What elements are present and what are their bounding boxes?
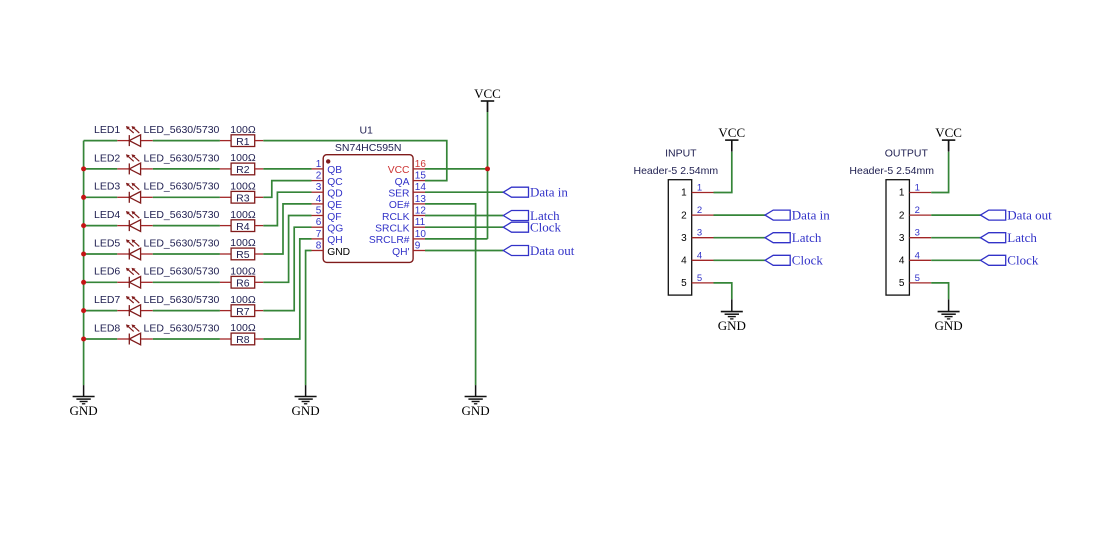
svg-text:5: 5	[316, 206, 322, 217]
svg-text:100Ω: 100Ω	[230, 322, 256, 334]
wire pin12 RCLK to Latch flag	[425, 215, 503, 217]
LED LED1	[117, 126, 153, 146]
svg-text:100Ω: 100Ω	[230, 237, 256, 249]
svg-text:QH': QH'	[392, 247, 409, 258]
svg-text:9: 9	[415, 241, 421, 252]
svg-text:Header-5 2.54mm: Header-5 2.54mm	[634, 165, 719, 177]
svg-text:LED3: LED3	[94, 181, 120, 193]
svg-text:Clock: Clock	[792, 253, 824, 268]
svg-text:R4: R4	[236, 221, 250, 233]
svg-text:VCC: VCC	[388, 165, 410, 176]
svg-text:3: 3	[899, 233, 905, 244]
net flag Latch INPUT	[765, 230, 822, 245]
pin 5 QF	[312, 206, 342, 223]
svg-text:2: 2	[915, 205, 920, 216]
svg-text:VCC: VCC	[474, 86, 501, 101]
wire INPUT pin2 to Data in flag	[714, 214, 766, 216]
wire R4 to pin3	[263, 192, 311, 225]
svg-text:5: 5	[681, 278, 687, 289]
svg-text:U1: U1	[359, 125, 373, 137]
wire VCC stem main	[487, 101, 489, 112]
svg-text:13: 13	[415, 194, 427, 205]
wire pin13 OE# to ground	[425, 204, 476, 385]
svg-text:4: 4	[899, 256, 905, 267]
wire INPUT pin4 to Clock flag	[714, 259, 766, 261]
svg-text:LED_5630/5730: LED_5630/5730	[144, 322, 220, 334]
svg-text:GND: GND	[327, 247, 350, 258]
svg-text:R5: R5	[236, 249, 250, 261]
svg-text:100Ω: 100Ω	[230, 294, 256, 306]
pin 2 of OUTPUT header	[899, 205, 931, 221]
svg-text:8: 8	[316, 241, 322, 252]
svg-text:10: 10	[415, 229, 427, 240]
svg-text:4: 4	[915, 250, 920, 261]
svg-text:100Ω: 100Ω	[230, 152, 256, 164]
net flag Data in SER	[503, 185, 568, 200]
svg-text:GND: GND	[70, 403, 98, 418]
wire LED7 to R7	[153, 310, 220, 312]
ground GND right	[462, 397, 490, 418]
pin 9 QH&#39;	[392, 241, 425, 258]
svg-text:Latch: Latch	[792, 230, 822, 245]
ground OUTPUT	[935, 312, 963, 333]
svg-text:4: 4	[697, 250, 702, 261]
net flag Clock SRCLK	[503, 220, 561, 235]
wire LED4 row left segment	[84, 225, 118, 227]
svg-text:Clock: Clock	[1007, 253, 1039, 268]
svg-text:1: 1	[316, 159, 322, 170]
svg-text:5: 5	[697, 273, 702, 284]
svg-text:7: 7	[316, 229, 322, 240]
svg-text:100Ω: 100Ω	[230, 124, 256, 136]
wire LED2 row left segment	[84, 168, 118, 170]
resistor R3	[220, 191, 263, 203]
svg-text:GND: GND	[935, 318, 963, 333]
wire LED2 to R2	[153, 168, 220, 170]
svg-text:3: 3	[316, 182, 322, 193]
LED LED3	[117, 183, 153, 203]
net flag Data in INPUT	[765, 208, 830, 223]
svg-text:LED6: LED6	[94, 266, 120, 278]
resistor R7	[220, 305, 263, 317]
svg-text:3: 3	[697, 228, 702, 239]
svg-text:6: 6	[316, 217, 322, 228]
pin 6 QG	[312, 217, 344, 234]
wire LED8 row left segment	[84, 338, 118, 340]
svg-text:SER: SER	[388, 189, 409, 200]
connector INPUT Header-5 body	[668, 180, 691, 295]
net flag Clock INPUT	[765, 253, 823, 268]
pin 8 GND	[312, 241, 351, 258]
svg-text:12: 12	[415, 206, 427, 217]
pin 15 QA	[395, 171, 427, 188]
junction node LED4 bus	[81, 223, 86, 228]
svg-text:2: 2	[681, 210, 687, 221]
junction node LED8 bus	[81, 337, 86, 342]
svg-text:R3: R3	[236, 193, 250, 205]
pin 14 SER	[388, 182, 426, 199]
pin 12 RCLK	[382, 206, 426, 223]
wire LED6 to R6	[153, 281, 220, 283]
svg-text:LED_5630/5730: LED_5630/5730	[144, 237, 220, 249]
wire INPUT pin3 to Latch flag	[714, 237, 766, 239]
svg-text:VCC: VCC	[935, 125, 962, 140]
svg-text:Data out: Data out	[530, 243, 575, 258]
wire left bus to ground stem	[83, 385, 85, 396]
svg-text:QA: QA	[395, 177, 410, 188]
wire INPUT pin1 to VCC	[714, 152, 732, 193]
svg-text:11: 11	[415, 217, 426, 228]
svg-text:16: 16	[415, 159, 427, 170]
svg-text:LED7: LED7	[94, 294, 120, 306]
svg-text:LED1: LED1	[94, 124, 120, 136]
wire LED7 row left segment	[84, 310, 118, 312]
svg-text:R2: R2	[236, 164, 250, 176]
LED LED7	[117, 296, 153, 316]
IC U1 pin1 marker dot	[326, 159, 330, 163]
svg-text:LED_5630/5730: LED_5630/5730	[144, 181, 220, 193]
junction node LED5 bus	[81, 252, 86, 257]
svg-text:RCLK: RCLK	[382, 212, 410, 223]
wire pin8 GND to ground	[306, 251, 312, 386]
pin 1 of OUTPUT header	[899, 183, 931, 199]
resistor R1	[220, 135, 263, 147]
pin 3 of OUTPUT header	[899, 228, 931, 244]
svg-text:Data in: Data in	[792, 208, 830, 223]
wire R8 to pin7	[263, 239, 311, 339]
wire R2 to pin1 QB	[263, 168, 311, 170]
connector OUTPUT Header-5 body	[886, 180, 909, 295]
svg-text:OUTPUT: OUTPUT	[885, 147, 929, 159]
pin 10 SRCLR#	[369, 229, 427, 246]
svg-text:LED_5630/5730: LED_5630/5730	[144, 152, 220, 164]
pin 5 of OUTPUT header	[899, 273, 931, 289]
wire R3 to pin2	[263, 181, 311, 198]
svg-text:QE: QE	[327, 200, 342, 211]
ground GND left	[70, 397, 98, 418]
resistor R4	[220, 220, 263, 232]
svg-text:LED2: LED2	[94, 152, 120, 164]
svg-text:LED5: LED5	[94, 237, 120, 249]
svg-text:5: 5	[899, 278, 905, 289]
wire LED5 to R5	[153, 253, 220, 255]
pin 11 SRCLK	[375, 217, 425, 234]
op IC U1 body SN74HC595N	[323, 155, 413, 263]
svg-text:QG: QG	[327, 224, 343, 235]
svg-text:INPUT: INPUT	[665, 147, 697, 159]
power flag VCC main	[474, 86, 501, 112]
svg-text:Latch: Latch	[1007, 230, 1037, 245]
svg-text:LED_5630/5730: LED_5630/5730	[144, 124, 220, 136]
svg-text:GND: GND	[718, 318, 746, 333]
svg-text:LED8: LED8	[94, 322, 120, 334]
wire OUTPUT pin1 to VCC	[931, 152, 948, 193]
junction node LED2 bus	[81, 166, 86, 171]
LED LED4	[117, 211, 153, 231]
svg-text:100Ω: 100Ω	[230, 266, 256, 278]
wire INPUT ground stem	[731, 299, 733, 311]
net flag Latch OUTPUT	[981, 230, 1038, 245]
LED LED2	[117, 154, 153, 174]
LED LED5	[117, 239, 153, 259]
svg-text:SRCLR#: SRCLR#	[369, 235, 410, 246]
svg-text:VCC: VCC	[718, 125, 745, 140]
svg-text:LED_5630/5730: LED_5630/5730	[144, 266, 220, 278]
wire R5 to pin4	[263, 204, 311, 254]
wire LED1 to R1	[153, 140, 220, 142]
wire OUTPUT pin4 to Clock flag	[931, 259, 980, 261]
wire pin16 VCC to vcc rail	[425, 168, 488, 170]
svg-text:R8: R8	[236, 334, 250, 346]
svg-text:QH: QH	[327, 235, 342, 246]
wire INPUT pin5 to GND	[714, 283, 732, 299]
net flag Latch RCLK	[503, 208, 560, 223]
pin 3 of INPUT header	[681, 228, 713, 244]
svg-text:1: 1	[915, 183, 920, 194]
pin 1 QB	[312, 159, 343, 176]
wire R1 to pin15 QA	[263, 141, 447, 181]
resistor R8	[220, 333, 263, 345]
svg-text:LED_5630/5730: LED_5630/5730	[144, 209, 220, 221]
wire OUTPUT VCC stem	[948, 140, 950, 152]
pin 2 of INPUT header	[681, 205, 713, 221]
svg-text:4: 4	[316, 194, 322, 205]
pin 2 QC	[312, 171, 344, 188]
svg-text:R7: R7	[236, 306, 250, 318]
wire LED3 row left segment	[84, 196, 118, 198]
pin 4 of OUTPUT header	[899, 250, 931, 266]
wire VCC rail vertical	[487, 112, 489, 239]
svg-text:3: 3	[681, 233, 687, 244]
wire left vertical bus	[83, 141, 85, 386]
pin 3 QD	[312, 182, 343, 199]
wire pin14 SER to Data in flag	[425, 191, 503, 193]
pin 1 of INPUT header	[681, 183, 713, 199]
junction node LED6 bus	[81, 280, 86, 285]
wire OUTPUT pin2 to Data out flag	[931, 214, 980, 216]
wire LED1 row left segment	[84, 140, 118, 142]
svg-text:Data in: Data in	[530, 185, 568, 200]
svg-text:Clock: Clock	[530, 220, 562, 235]
svg-text:LED4: LED4	[94, 209, 120, 221]
power flag VCC INPUT	[718, 125, 745, 151]
svg-text:SRCLK: SRCLK	[375, 224, 409, 235]
svg-text:100Ω: 100Ω	[230, 209, 256, 221]
svg-text:2: 2	[697, 205, 702, 216]
svg-text:GND: GND	[292, 403, 320, 418]
wire pin11 SRCLK to Clock flag	[425, 226, 503, 228]
power flag VCC OUTPUT	[935, 125, 962, 151]
svg-text:Header-5 2.54mm: Header-5 2.54mm	[849, 165, 934, 177]
pin 4 of INPUT header	[681, 250, 713, 266]
junction node LED7 bus	[81, 308, 86, 313]
svg-text:100Ω: 100Ω	[230, 181, 256, 193]
svg-text:2: 2	[899, 210, 905, 221]
wire LED8 to R8	[153, 338, 220, 340]
resistor R5	[220, 248, 263, 260]
svg-text:QD: QD	[327, 189, 342, 200]
pin 7 QH	[312, 229, 343, 246]
LED LED8	[117, 324, 153, 344]
svg-text:2: 2	[316, 171, 322, 182]
resistor R6	[220, 276, 263, 288]
svg-text:SN74HC595N: SN74HC595N	[335, 142, 402, 154]
pin 16 VCC	[388, 159, 427, 176]
wire R7 to pin6	[263, 227, 311, 310]
wire right ground stem	[475, 385, 477, 396]
pin 13 OE#	[389, 194, 426, 211]
wire LED5 row left segment	[84, 253, 118, 255]
net flag Data out OUTPUT	[981, 208, 1053, 223]
svg-text:Data out: Data out	[1007, 208, 1052, 223]
wire OUTPUT pin5 to GND	[931, 283, 948, 299]
pin 5 of INPUT header	[681, 273, 713, 289]
svg-text:1: 1	[681, 188, 687, 199]
wire middle ground stem	[305, 385, 307, 396]
ground GND middle	[292, 397, 320, 418]
svg-text:OE#: OE#	[389, 200, 410, 211]
svg-text:GND: GND	[462, 403, 490, 418]
net flag Clock OUTPUT	[981, 253, 1039, 268]
svg-text:14: 14	[415, 182, 427, 193]
svg-text:1: 1	[899, 188, 905, 199]
svg-text:4: 4	[681, 256, 687, 267]
junction node LED3 bus	[81, 195, 86, 200]
svg-text:R1: R1	[236, 136, 250, 148]
junction node VCC rail pin16	[485, 166, 490, 171]
wire R6 to pin5	[263, 216, 311, 283]
wire INPUT VCC stem	[731, 140, 733, 152]
wire pin9 QHp to Data out flag	[425, 250, 503, 252]
ground INPUT	[718, 312, 746, 333]
svg-text:5: 5	[915, 273, 920, 284]
pin 4 QE	[312, 194, 343, 211]
wire OUTPUT pin3 to Latch flag	[931, 237, 980, 239]
svg-text:R6: R6	[236, 278, 250, 290]
svg-text:QF: QF	[327, 212, 341, 223]
svg-text:1: 1	[697, 183, 702, 194]
svg-text:QB: QB	[327, 165, 342, 176]
wire LED6 row left segment	[84, 281, 118, 283]
wire LED4 to R4	[153, 225, 220, 227]
net flag Data out QH'	[503, 243, 574, 258]
svg-text:15: 15	[415, 171, 427, 182]
LED LED6	[117, 268, 153, 288]
wire pin10 SRCLR# to vcc rail	[425, 238, 488, 240]
wire LED3 to R3	[153, 196, 220, 198]
wire OUTPUT ground stem	[948, 299, 950, 311]
resistor R2	[220, 163, 263, 175]
svg-text:3: 3	[915, 228, 920, 239]
svg-text:QC: QC	[327, 177, 343, 188]
svg-text:LED_5630/5730: LED_5630/5730	[144, 294, 220, 306]
